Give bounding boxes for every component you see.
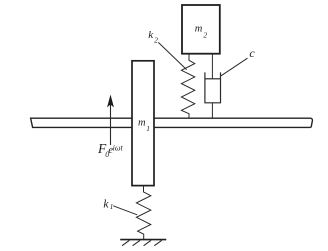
svg-text:c: c [249, 46, 255, 60]
leader line k2 [158, 42, 186, 69]
svg-text:m: m [195, 23, 203, 34]
leader line k1 [113, 206, 137, 215]
spring k1 (below m1) [136, 186, 150, 240]
svg-text:1: 1 [146, 124, 150, 133]
svg-text:m: m [138, 118, 146, 129]
leader line c [221, 58, 248, 76]
ground hatch 2 [133, 240, 140, 245]
mass m1 box [132, 61, 154, 186]
beam (horizontal bar) [31, 118, 313, 127]
svg-text:k: k [103, 199, 109, 211]
ground line [120, 239, 166, 241]
force arrow F0 shaft [110, 105, 112, 146]
svg-text:iωt: iωt [113, 143, 124, 152]
spring k2 (between m2 and beam) [181, 54, 194, 118]
damper c rod from m2 [211, 54, 213, 79]
svg-text:1: 1 [110, 202, 114, 211]
damper c rod to beam [211, 103, 213, 118]
mass m2 box [182, 5, 220, 54]
damper c cylinder [205, 72, 221, 102]
ground hatch 4 [154, 240, 161, 245]
ground hatch 3 [144, 240, 151, 245]
force arrow F0 head [108, 96, 114, 107]
damper c piston plate [205, 78, 221, 80]
svg-text:2: 2 [203, 30, 207, 39]
svg-text:2: 2 [154, 35, 158, 44]
ground hatch 1 [122, 240, 129, 245]
